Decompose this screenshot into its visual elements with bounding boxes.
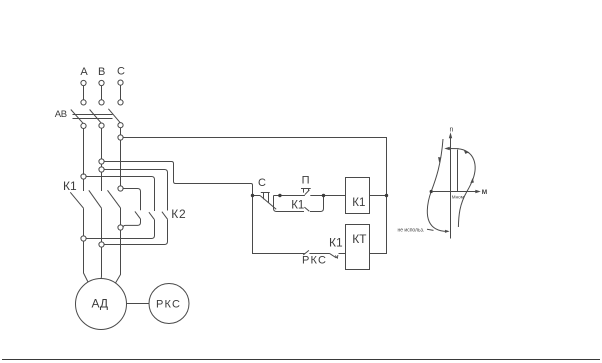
svg-text:В: В (98, 66, 105, 78)
svg-text:К2: К2 (171, 207, 186, 221)
svg-text:АД: АД (92, 296, 109, 310)
svg-text:Мном: Мном (452, 194, 464, 199)
svg-text:К1: К1 (63, 179, 77, 193)
svg-text:АВ: АВ (55, 109, 67, 120)
svg-text:М: М (482, 189, 487, 196)
svg-text:К1: К1 (329, 236, 343, 250)
svg-text:РКС: РКС (156, 299, 181, 311)
svg-text:К1: К1 (352, 197, 365, 209)
svg-text:n: n (450, 127, 454, 134)
svg-text:А: А (80, 66, 88, 78)
svg-text:П: П (302, 175, 310, 187)
svg-text:КТ: КТ (352, 232, 367, 246)
svg-text:РКС: РКС (302, 255, 327, 267)
svg-text:К1: К1 (291, 200, 304, 212)
svg-text:С: С (117, 66, 125, 78)
svg-text:С: С (258, 177, 266, 189)
svg-text:не использ.: не использ. (398, 227, 425, 233)
